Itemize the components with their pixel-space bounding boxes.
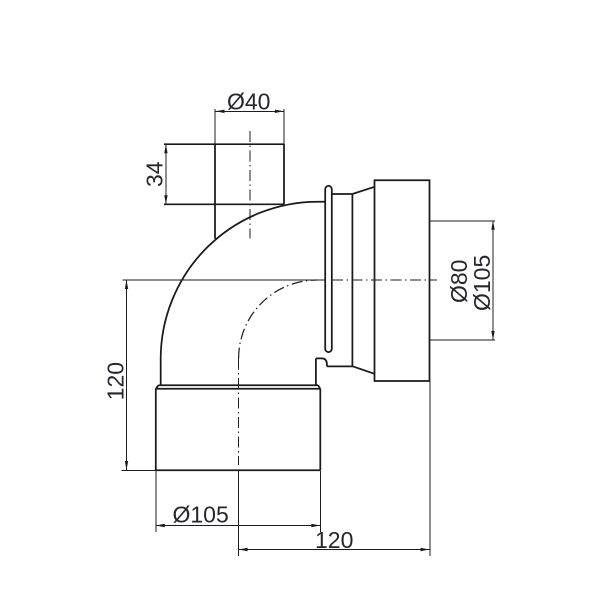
- dimension 120 bottom line: [239, 549, 430, 551]
- top stub right wall: [283, 144, 285, 204]
- inner centerline arc: [239, 280, 317, 359]
- dimension Ø105 arrow left: [156, 524, 165, 527]
- bottom socket left wall: [155, 389, 157, 471]
- taper bottom diagonal: [353, 366, 375, 373]
- top stub left wall: [214, 144, 216, 239]
- dimension Ø40 arrow right: [275, 110, 284, 113]
- top stub top edge: [164, 143, 284, 145]
- svg-text:Ø40: Ø40: [227, 89, 270, 115]
- vertical pipe right wall: [315, 358, 317, 385]
- ring seat bottom edge: [327, 365, 353, 367]
- dimension Ø105 arrow right: [311, 524, 320, 527]
- bottom socket mouth edge: [156, 469, 320, 471]
- svg-text:Ø105: Ø105: [469, 255, 495, 311]
- dimension Ø105 extension right: [319, 470, 321, 532]
- dimension 34 arrow bottom: [164, 195, 167, 204]
- vertical pipe centerline: [238, 359, 240, 466]
- dimension 120 left line: [126, 280, 128, 470]
- dimension Ø80/Ø105 arrow top: [491, 221, 494, 230]
- dimension Ø105 extension left: [155, 470, 157, 532]
- dimension Ø80/Ø105 line: [492, 221, 494, 340]
- bottom rim top edge: [159, 384, 319, 386]
- bottom rim left chamfer: [156, 385, 159, 389]
- ring seat top edge: [332, 193, 352, 195]
- taper top diagonal: [352, 187, 374, 194]
- dimension Ø40 line: [216, 110, 284, 112]
- horizontal centerline solid part / 120 extension: [123, 279, 326, 281]
- dimension 120 bottom arrow right: [421, 548, 430, 551]
- dimension Ø40 extension left: [214, 109, 216, 144]
- right socket body: [375, 180, 430, 381]
- horizontal pipe end edge: [351, 194, 353, 366]
- bottom rim bottom edge: [156, 388, 320, 390]
- dimension 120 bottom arrow left: [239, 548, 248, 551]
- svg-text:120: 120: [103, 362, 129, 400]
- dimension 34 arrow top: [164, 144, 167, 153]
- dimension Ø40 extension right: [283, 109, 285, 144]
- dimension 120 left extension bottom: [122, 469, 156, 471]
- dimension Ø80/Ø105 extension top: [430, 220, 496, 222]
- bottom rim right chamfer: [318, 385, 320, 389]
- dimension 120 left arrow bottom: [125, 461, 128, 470]
- dimension 34 line: [165, 144, 167, 204]
- sealing ring flange: [325, 186, 332, 352]
- svg-text:120: 120: [315, 527, 353, 553]
- bottom socket right wall: [319, 389, 321, 471]
- dimension Ø80/Ø105 arrow bottom: [491, 331, 494, 340]
- svg-text:Ø105: Ø105: [173, 502, 229, 528]
- dimension 120 bottom right extension: [429, 381, 431, 556]
- dimension Ø105 line: [156, 525, 320, 527]
- top stub centerline: [249, 131, 251, 239]
- svg-text:34: 34: [141, 161, 167, 187]
- dimension 120 left arrow top: [125, 280, 128, 289]
- horizontal centerline dash-dot part: [332, 279, 437, 281]
- dimension Ø80/Ø105 extension bottom: [430, 339, 496, 341]
- top stub lower edge (socket depth line): [164, 203, 284, 205]
- elbow outer arc with left wall and top tangent line: [161, 202, 326, 386]
- dimension 120 bottom left extension (centerline extended): [238, 470, 240, 556]
- pipe bottom step: [316, 358, 327, 366]
- dimension Ø40 arrow left: [216, 110, 225, 113]
